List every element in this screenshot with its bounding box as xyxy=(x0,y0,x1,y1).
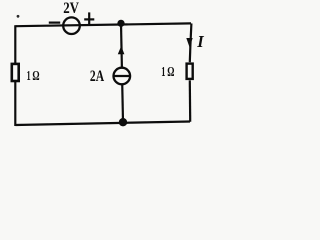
svg-text:2V: 2V xyxy=(63,0,79,17)
svg-text:2A: 2A xyxy=(90,68,105,85)
svg-text:Ω: Ω xyxy=(32,69,39,84)
svg-text:1: 1 xyxy=(161,65,165,80)
svg-text:Ω: Ω xyxy=(167,65,174,80)
svg-text:I: I xyxy=(196,32,204,51)
svg-text:1: 1 xyxy=(27,69,31,84)
